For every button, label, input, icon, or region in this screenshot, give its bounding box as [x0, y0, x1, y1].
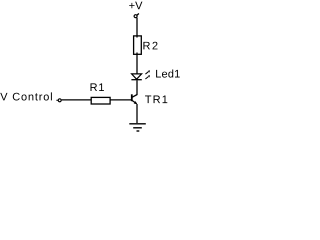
wire +V pin to R2 top: [136, 18, 138, 38]
node V Control label: [0, 92, 52, 100]
wire LED cathode to TR1 collector: [136, 80, 138, 95]
LED light arrow 1: [145, 70, 150, 74]
node +V label: [129, 2, 142, 10]
wire TR1 emitter to ground: [136, 104, 138, 123]
transistor TR1 collector lead: [132, 95, 137, 98]
LED light arrow 2: [145, 75, 150, 79]
transistor TR1 emitter arrowhead: [134, 101, 138, 104]
ground symbol: [129, 124, 146, 131]
transistor TR1 emitter lead: [132, 100, 137, 103]
wire R1 right to TR1 base: [110, 99, 132, 101]
resistor R2 body: [134, 36, 142, 54]
LED Led1 cathode bar: [131, 79, 141, 81]
resistor R1 value label: [91, 83, 104, 91]
wire input pin to R1 left: [62, 99, 91, 101]
resistor R2 value label: [143, 42, 157, 50]
resistor R1 body: [91, 97, 110, 104]
power pin terminal (circle with stub): [134, 14, 139, 18]
transistor TR1 label: [145, 96, 167, 104]
input pin terminal (circle with stub): [56, 99, 61, 102]
LED Led1 diode triangle: [132, 74, 142, 79]
wire R2 bottom to LED anode: [136, 53, 138, 75]
LED label Led1: [156, 70, 180, 78]
transistor TR1 base bar: [131, 94, 133, 101]
